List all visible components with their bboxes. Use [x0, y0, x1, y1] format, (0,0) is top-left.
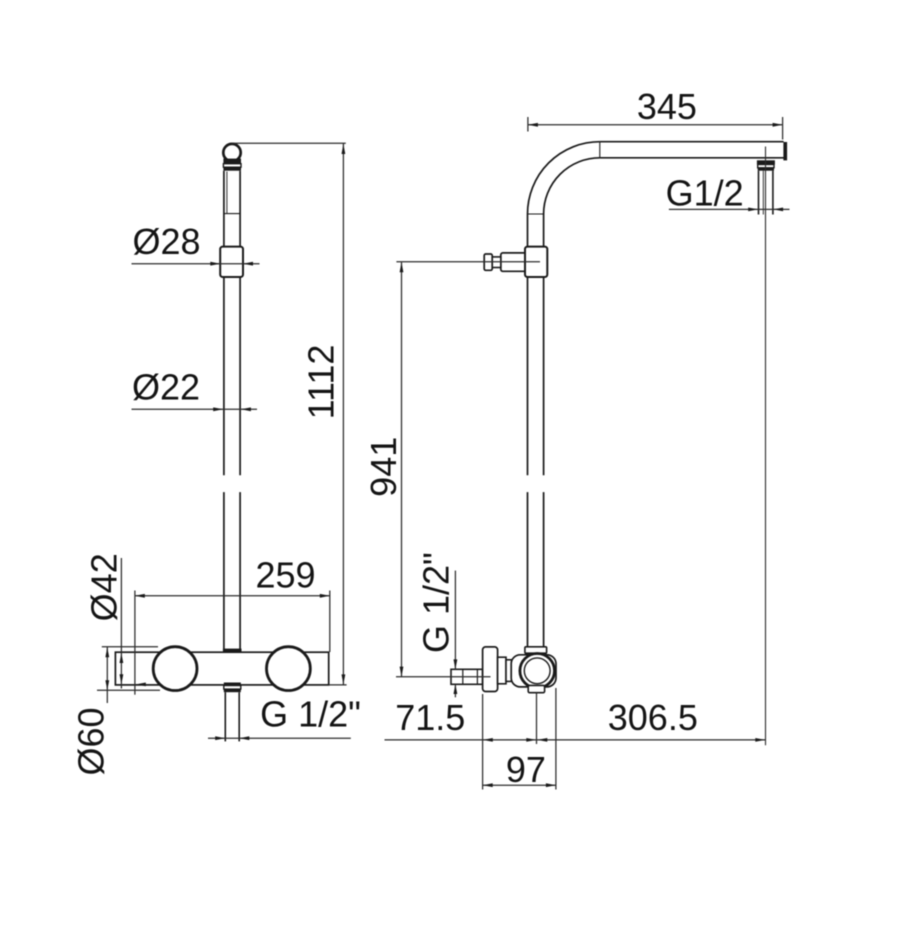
svg-text:306.5: 306.5 [608, 697, 698, 738]
svg-text:941: 941 [363, 437, 404, 497]
svg-text:97: 97 [506, 749, 546, 790]
svg-text:Ø28: Ø28 [132, 221, 200, 262]
svg-text:1112: 1112 [301, 345, 342, 420]
svg-text:G 1/2": G 1/2" [416, 552, 457, 653]
svg-text:G 1/2": G 1/2" [260, 694, 361, 735]
svg-text:G1/2: G1/2 [666, 173, 744, 214]
svg-text:Ø60: Ø60 [71, 707, 112, 775]
svg-text:345: 345 [637, 86, 697, 127]
svg-text:Ø42: Ø42 [84, 553, 125, 621]
svg-text:71.5: 71.5 [395, 697, 465, 738]
svg-text:Ø22: Ø22 [132, 367, 200, 408]
svg-text:259: 259 [255, 555, 315, 596]
